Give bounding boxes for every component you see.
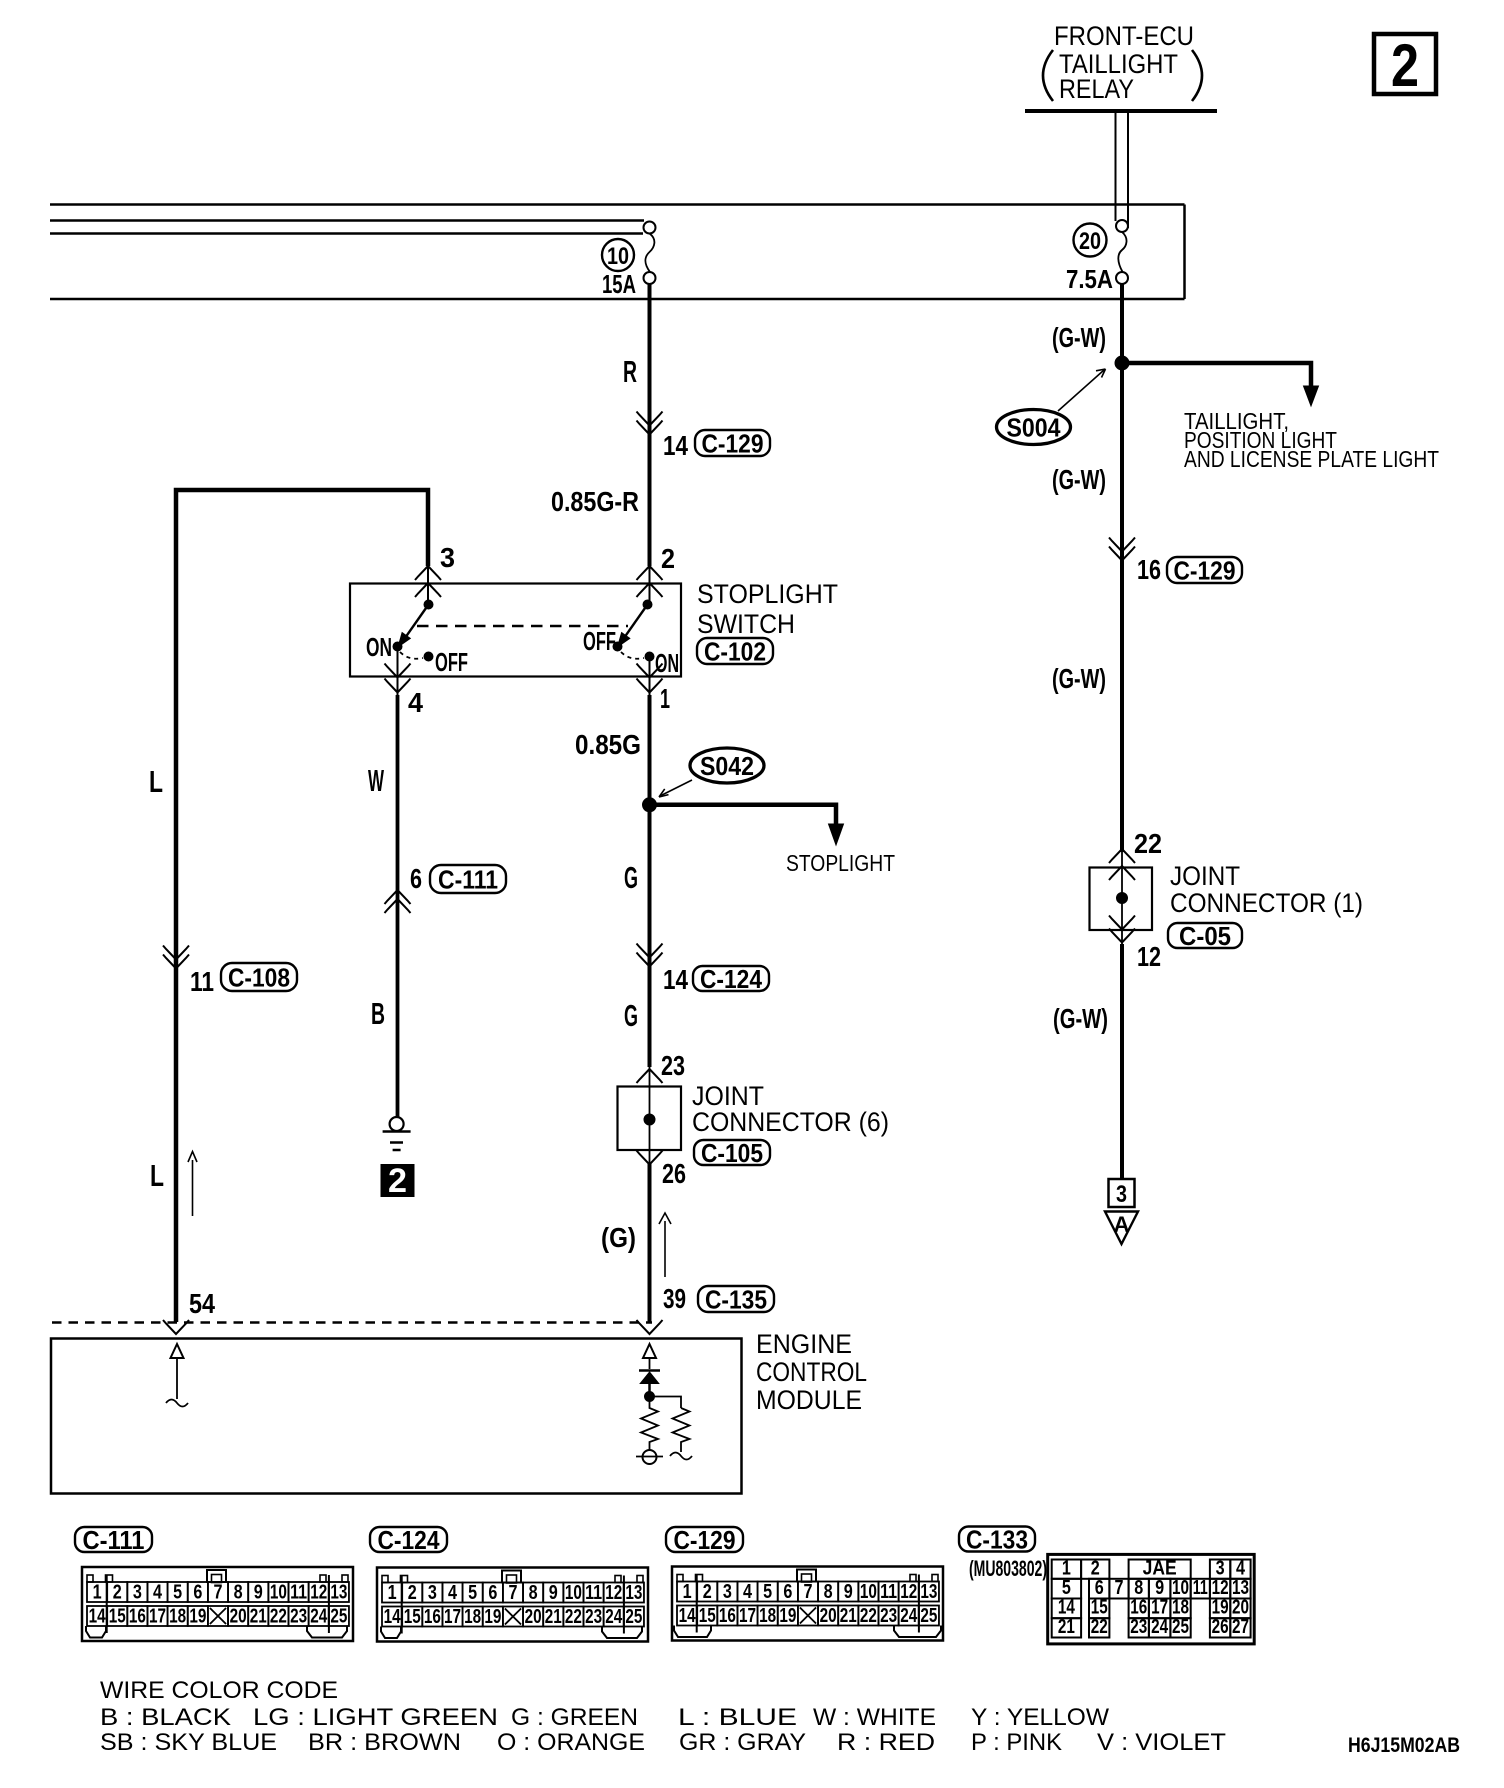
svg-text:(G-W): (G-W) <box>1052 322 1106 353</box>
svg-text:23: 23 <box>1130 1616 1147 1638</box>
svg-text:C-129: C-129 <box>674 1525 736 1555</box>
wire pair from relay to fuse 20 <box>1115 113 1117 221</box>
svg-text:2: 2 <box>408 1582 417 1604</box>
svg-text:CONNECTOR (6): CONNECTOR (6) <box>692 1107 889 1137</box>
stoplight switch box <box>350 584 681 677</box>
svg-text:G: G <box>624 860 638 895</box>
svg-text:24: 24 <box>1151 1616 1169 1638</box>
junction block box <box>50 203 1185 206</box>
pin 3 entry chevrons <box>415 566 441 580</box>
svg-text:10: 10 <box>565 1582 582 1604</box>
svg-text:C-111: C-111 <box>83 1525 145 1555</box>
svg-text:23: 23 <box>880 1605 897 1627</box>
svg-text:10: 10 <box>270 1582 287 1604</box>
switch gang dashed line <box>417 625 628 627</box>
svg-text:R: R <box>623 354 637 389</box>
bus wire double line <box>50 219 644 222</box>
svg-text:9: 9 <box>254 1582 263 1604</box>
wire G-W lower <box>1120 944 1124 1179</box>
svg-text:1: 1 <box>1062 1557 1071 1579</box>
off-page ref 3 box <box>1109 1179 1135 1207</box>
joint connector 6 box <box>618 1087 682 1151</box>
joint connector 6 chevron top <box>637 1069 663 1083</box>
svg-text:6: 6 <box>1095 1577 1104 1599</box>
svg-text:C-102: C-102 <box>704 636 766 666</box>
svg-text:GR : GRAY: GR : GRAY <box>679 1729 806 1756</box>
connector view C-111 pinout <box>82 1567 353 1641</box>
svg-text:6: 6 <box>193 1582 202 1604</box>
svg-text:11: 11 <box>880 1581 897 1603</box>
svg-text:23: 23 <box>585 1606 602 1628</box>
svg-text:22: 22 <box>565 1606 582 1628</box>
svg-text:W : WHITE: W : WHITE <box>813 1704 936 1731</box>
svg-text:STOPLIGHT: STOPLIGHT <box>697 579 838 609</box>
svg-text:14: 14 <box>663 964 688 995</box>
svg-text:1: 1 <box>388 1582 397 1604</box>
svg-text:20: 20 <box>525 1606 542 1628</box>
splice S004 ellipse <box>997 410 1071 445</box>
svg-text:5: 5 <box>763 1581 772 1603</box>
ECM pull-down output phi <box>643 1450 657 1464</box>
svg-text:H6J15M02AB: H6J15M02AB <box>1348 1734 1460 1757</box>
ECM pin54 internal <box>171 1344 184 1358</box>
svg-text:C-124: C-124 <box>700 964 762 994</box>
svg-text:4: 4 <box>408 687 423 718</box>
svg-text:C-111: C-111 <box>438 864 498 894</box>
svg-text:24: 24 <box>310 1606 328 1628</box>
connector view C-124 label <box>370 1527 447 1552</box>
svg-text:15: 15 <box>404 1606 421 1628</box>
svg-text:15: 15 <box>109 1606 126 1628</box>
svg-text:39: 39 <box>663 1283 686 1314</box>
svg-text:5: 5 <box>1062 1577 1071 1599</box>
svg-text:9: 9 <box>844 1581 853 1603</box>
switch right ON contact <box>645 652 654 661</box>
svg-text:L: L <box>150 1158 164 1193</box>
svg-text:18: 18 <box>464 1606 481 1628</box>
svg-text:6: 6 <box>488 1582 497 1604</box>
wire G-W from fuse 20 <box>1120 284 1124 852</box>
svg-text:W: W <box>368 763 384 798</box>
svg-text:WIRE COLOR CODE: WIRE COLOR CODE <box>100 1677 338 1704</box>
connector view C-133 pinout <box>1048 1554 1255 1644</box>
svg-text:25: 25 <box>1172 1616 1189 1638</box>
junction node S004 <box>1115 356 1129 370</box>
svg-text:7: 7 <box>803 1581 812 1603</box>
wire R from fuse 10 <box>648 284 652 566</box>
pin 39 entry chevron <box>637 1320 663 1334</box>
svg-text:9: 9 <box>1155 1577 1164 1599</box>
svg-text:(MU803802): (MU803802) <box>969 1556 1047 1581</box>
svg-text:20: 20 <box>820 1605 837 1627</box>
svg-text:6: 6 <box>783 1581 792 1603</box>
svg-text:(G-W): (G-W) <box>1052 663 1106 694</box>
connector C-135 label <box>698 1286 774 1312</box>
svg-text:8: 8 <box>824 1581 833 1603</box>
svg-text:JAE: JAE <box>1143 1557 1177 1579</box>
svg-text:O : ORANGE: O : ORANGE <box>497 1729 645 1756</box>
joint connector 1 box <box>1090 868 1153 931</box>
connector view C-129 pinout <box>672 1567 943 1641</box>
svg-text:2: 2 <box>388 1162 407 1200</box>
page number 2 box <box>1374 34 1436 94</box>
svg-text:7: 7 <box>1115 1577 1124 1599</box>
wire pin3 into switch <box>427 566 429 606</box>
svg-text:23: 23 <box>661 1050 685 1081</box>
svg-text:17: 17 <box>739 1605 756 1627</box>
svg-text:4: 4 <box>1236 1557 1246 1579</box>
direction arrow up center <box>664 1221 666 1277</box>
svg-text:4: 4 <box>448 1582 458 1604</box>
svg-text:8: 8 <box>234 1582 243 1604</box>
svg-text:0.85G-R: 0.85G-R <box>551 486 639 517</box>
connector view C-129 label <box>666 1527 743 1552</box>
ground ref black box 2 <box>381 1165 414 1197</box>
svg-text:8: 8 <box>1134 1577 1143 1599</box>
fuse 20 7.5A <box>1074 224 1107 257</box>
switch left ON contact <box>393 642 402 651</box>
switch left OFF contact <box>424 652 433 661</box>
svg-text:14: 14 <box>679 1605 697 1627</box>
ECM internal junction node <box>645 1392 655 1402</box>
svg-text:STOPLIGHT: STOPLIGHT <box>786 850 895 876</box>
svg-text:23: 23 <box>290 1606 307 1628</box>
dashed firewall line <box>52 1321 652 1324</box>
svg-text:JOINT: JOINT <box>1170 861 1240 891</box>
svg-text:RELAY: RELAY <box>1059 74 1134 104</box>
connector C-111 chevrons <box>385 890 411 904</box>
connector C-05 label <box>1168 923 1242 948</box>
off-page arrow A <box>1105 1212 1138 1245</box>
svg-text:19: 19 <box>484 1606 501 1628</box>
svg-text:7: 7 <box>508 1582 517 1604</box>
svg-text:L: L <box>149 764 163 799</box>
svg-text:25: 25 <box>625 1606 642 1628</box>
svg-text:ON: ON <box>655 648 679 678</box>
svg-text:16: 16 <box>1137 554 1161 585</box>
connector C-124 chevrons <box>637 944 663 958</box>
svg-text:10: 10 <box>607 243 629 270</box>
svg-text:C-133: C-133 <box>966 1524 1028 1554</box>
svg-text:3: 3 <box>1116 1181 1127 1208</box>
connector C-129 right label <box>1167 557 1242 583</box>
svg-text:11: 11 <box>1193 1577 1208 1599</box>
ground symbol <box>390 1117 404 1131</box>
svg-text:C-108: C-108 <box>228 962 290 992</box>
svg-text:MODULE: MODULE <box>756 1385 862 1415</box>
svg-text:19: 19 <box>779 1605 796 1627</box>
relay bottom bar <box>1025 109 1217 113</box>
svg-text:26: 26 <box>662 1158 686 1189</box>
wire W segment <box>397 649 399 695</box>
wire (G) segment <box>648 1163 652 1322</box>
svg-text:12: 12 <box>310 1582 327 1604</box>
svg-text:1: 1 <box>660 683 670 714</box>
svg-text:18: 18 <box>169 1606 186 1628</box>
connector view C-124 pinout <box>377 1568 648 1642</box>
svg-text:C-129: C-129 <box>1174 555 1236 585</box>
branch wire to taillight <box>1122 363 1311 387</box>
svg-text:12: 12 <box>900 1581 917 1603</box>
svg-text:B: B <box>371 996 385 1031</box>
svg-text:4: 4 <box>743 1581 753 1603</box>
svg-text:L : BLUE: L : BLUE <box>678 1704 797 1731</box>
svg-text:CONNECTOR (1): CONNECTOR (1) <box>1170 888 1363 918</box>
svg-text:26: 26 <box>1212 1616 1229 1638</box>
svg-text:OFF: OFF <box>583 626 616 656</box>
svg-text:G: G <box>624 998 638 1033</box>
ECM branch to right resistor <box>650 1397 682 1409</box>
svg-text:16: 16 <box>424 1606 441 1628</box>
ECM left resistor <box>641 1401 658 1450</box>
svg-text:5: 5 <box>468 1582 477 1604</box>
svg-text:22: 22 <box>860 1605 877 1627</box>
svg-text:4: 4 <box>153 1582 163 1604</box>
svg-text:G : GREEN: G : GREEN <box>511 1704 638 1731</box>
svg-text:CONTROL: CONTROL <box>756 1357 867 1387</box>
svg-text:2: 2 <box>113 1582 122 1604</box>
ECM right resistor <box>673 1408 690 1452</box>
svg-text:C-124: C-124 <box>378 1525 440 1555</box>
switch right arm <box>624 605 648 639</box>
svg-text:2: 2 <box>1091 1557 1100 1579</box>
svg-text:13: 13 <box>625 1582 642 1604</box>
relay label parentheses <box>1043 50 1053 101</box>
svg-text:ENGINE: ENGINE <box>756 1329 852 1359</box>
svg-text:AND LICENSE PLATE LIGHT: AND LICENSE PLATE LIGHT <box>1184 446 1439 472</box>
svg-text:13: 13 <box>1232 1577 1249 1599</box>
svg-text:C-129: C-129 <box>702 428 764 458</box>
svg-text:22: 22 <box>270 1606 287 1628</box>
svg-text:FRONT-ECU: FRONT-ECU <box>1054 21 1194 51</box>
svg-text:21: 21 <box>545 1606 562 1628</box>
connector C-108 chevrons <box>163 946 189 960</box>
ECM right resistor tail <box>670 1453 692 1460</box>
svg-text:ON: ON <box>366 632 392 662</box>
svg-text:10: 10 <box>860 1581 877 1603</box>
connector C-129 right chevrons <box>1109 538 1135 552</box>
connector C-129 pass-through chevrons <box>637 412 663 426</box>
splice S042 ellipse <box>690 748 764 783</box>
svg-text:13: 13 <box>330 1582 347 1604</box>
svg-text:A: A <box>1114 1212 1130 1237</box>
svg-text:13: 13 <box>920 1581 937 1603</box>
svg-text:(G-W): (G-W) <box>1053 1003 1108 1034</box>
switch left pivot <box>424 600 433 609</box>
connector view C-133 label <box>959 1527 1035 1552</box>
svg-text:24: 24 <box>605 1606 623 1628</box>
svg-text:S042: S042 <box>700 751 754 781</box>
svg-text:21: 21 <box>250 1606 267 1628</box>
switch left dashed throw arc <box>400 652 423 659</box>
switch right pivot <box>643 600 652 609</box>
pin 1 exit chevrons <box>637 664 663 678</box>
connector C-111 inline label <box>430 865 506 893</box>
svg-text:27: 27 <box>1232 1616 1249 1638</box>
svg-text:18: 18 <box>759 1605 776 1627</box>
connector C-129 label <box>695 430 770 456</box>
svg-text:1: 1 <box>683 1581 692 1603</box>
switch left arm <box>405 605 429 639</box>
svg-text:C-05: C-05 <box>1179 921 1231 951</box>
joint connector 6 chevron bottom <box>637 1151 663 1165</box>
fuse 10 15A <box>602 239 634 271</box>
wire L thick leg <box>176 490 428 1322</box>
svg-text:S004: S004 <box>1007 413 1061 443</box>
connector C-124 label <box>693 966 769 991</box>
wire G upper <box>648 812 652 1067</box>
svg-text:19: 19 <box>189 1606 206 1628</box>
svg-text:14: 14 <box>89 1606 107 1628</box>
svg-text:16: 16 <box>719 1605 736 1627</box>
svg-text:14: 14 <box>384 1606 402 1628</box>
arrow from S042 to junction <box>661 780 692 796</box>
ECM pin39 internal triangle <box>643 1344 656 1358</box>
svg-text:6: 6 <box>410 863 422 894</box>
svg-text:12: 12 <box>1137 941 1161 972</box>
svg-text:2: 2 <box>1391 32 1419 99</box>
branch wire to stoplight <box>650 805 837 825</box>
svg-text:7: 7 <box>213 1582 222 1604</box>
svg-text:25: 25 <box>920 1605 937 1627</box>
svg-text:15A: 15A <box>602 269 636 299</box>
svg-text:15: 15 <box>699 1605 716 1627</box>
pin 4 exit chevrons <box>385 664 411 678</box>
svg-text:16: 16 <box>129 1606 146 1628</box>
wire pin2 into switch <box>649 566 651 606</box>
svg-text:SB : SKY BLUE: SB : SKY BLUE <box>100 1729 277 1756</box>
connector view C-111 label <box>75 1527 152 1552</box>
svg-text:3: 3 <box>723 1581 732 1603</box>
svg-text:V : VIOLET: V : VIOLET <box>1097 1729 1226 1756</box>
arrow from S004 to junction <box>1058 370 1104 411</box>
connector C-105 label <box>694 1140 770 1165</box>
svg-text:3: 3 <box>428 1582 437 1604</box>
svg-text:22: 22 <box>1091 1616 1108 1638</box>
svg-text:11: 11 <box>290 1582 307 1604</box>
svg-text:B : BLACK: B : BLACK <box>100 1704 231 1731</box>
svg-text:0.85G: 0.85G <box>575 729 641 760</box>
connector C-102 label <box>697 638 773 664</box>
direction arrow up left <box>192 1160 194 1216</box>
joint connector 1 chevrons top <box>1109 849 1135 863</box>
svg-text:3: 3 <box>1216 1557 1225 1579</box>
svg-text:10: 10 <box>1172 1577 1189 1599</box>
svg-text:20: 20 <box>1079 228 1101 255</box>
svg-text:11: 11 <box>585 1582 602 1604</box>
switch right dashed throw arc <box>621 652 644 659</box>
svg-text:(G-W): (G-W) <box>1052 464 1106 495</box>
svg-text:LG : LIGHT GREEN: LG : LIGHT GREEN <box>253 1704 498 1731</box>
svg-text:SWITCH: SWITCH <box>697 609 795 639</box>
svg-text:7.5A: 7.5A <box>1066 264 1113 294</box>
joint connector 1 chevrons bottom <box>1109 916 1135 930</box>
svg-text:3: 3 <box>133 1582 142 1604</box>
svg-text:R : RED: R : RED <box>837 1729 935 1756</box>
svg-text:21: 21 <box>840 1605 857 1627</box>
svg-text:14: 14 <box>663 430 688 461</box>
svg-text:C-105: C-105 <box>701 1138 763 1168</box>
svg-text:OFF: OFF <box>435 647 468 677</box>
svg-text:17: 17 <box>149 1606 166 1628</box>
svg-text:12: 12 <box>1212 1577 1229 1599</box>
svg-text:25: 25 <box>330 1606 347 1628</box>
svg-text:3: 3 <box>440 542 455 573</box>
svg-text:12: 12 <box>605 1582 622 1604</box>
pin 2 entry chevrons <box>637 566 663 580</box>
svg-text:2: 2 <box>703 1581 712 1603</box>
svg-text:BR : BROWN: BR : BROWN <box>308 1729 461 1756</box>
ECM diode <box>639 1369 660 1372</box>
svg-text:C-135: C-135 <box>705 1284 767 1314</box>
svg-text:1: 1 <box>93 1582 102 1604</box>
svg-text:9: 9 <box>549 1582 558 1604</box>
svg-text:8: 8 <box>529 1582 538 1604</box>
junction node S042 <box>643 798 657 812</box>
engine control module box <box>51 1339 742 1494</box>
svg-text:(G): (G) <box>601 1222 636 1253</box>
svg-text:22: 22 <box>1134 828 1162 859</box>
switch right OFF contact <box>613 642 622 651</box>
wire 0.85G segment <box>649 658 651 695</box>
svg-text:20: 20 <box>230 1606 247 1628</box>
svg-text:Y : YELLOW: Y : YELLOW <box>971 1704 1109 1731</box>
svg-text:54: 54 <box>189 1288 215 1319</box>
svg-text:11: 11 <box>190 966 214 997</box>
pin 54 entry chevron <box>163 1320 189 1334</box>
svg-text:21: 21 <box>1058 1616 1075 1638</box>
svg-text:2: 2 <box>661 543 675 574</box>
svg-text:P : PINK: P : PINK <box>971 1729 1062 1756</box>
svg-text:24: 24 <box>900 1605 918 1627</box>
svg-text:5: 5 <box>173 1582 182 1604</box>
svg-text:17: 17 <box>444 1606 461 1628</box>
connector C-108 label <box>221 963 297 991</box>
